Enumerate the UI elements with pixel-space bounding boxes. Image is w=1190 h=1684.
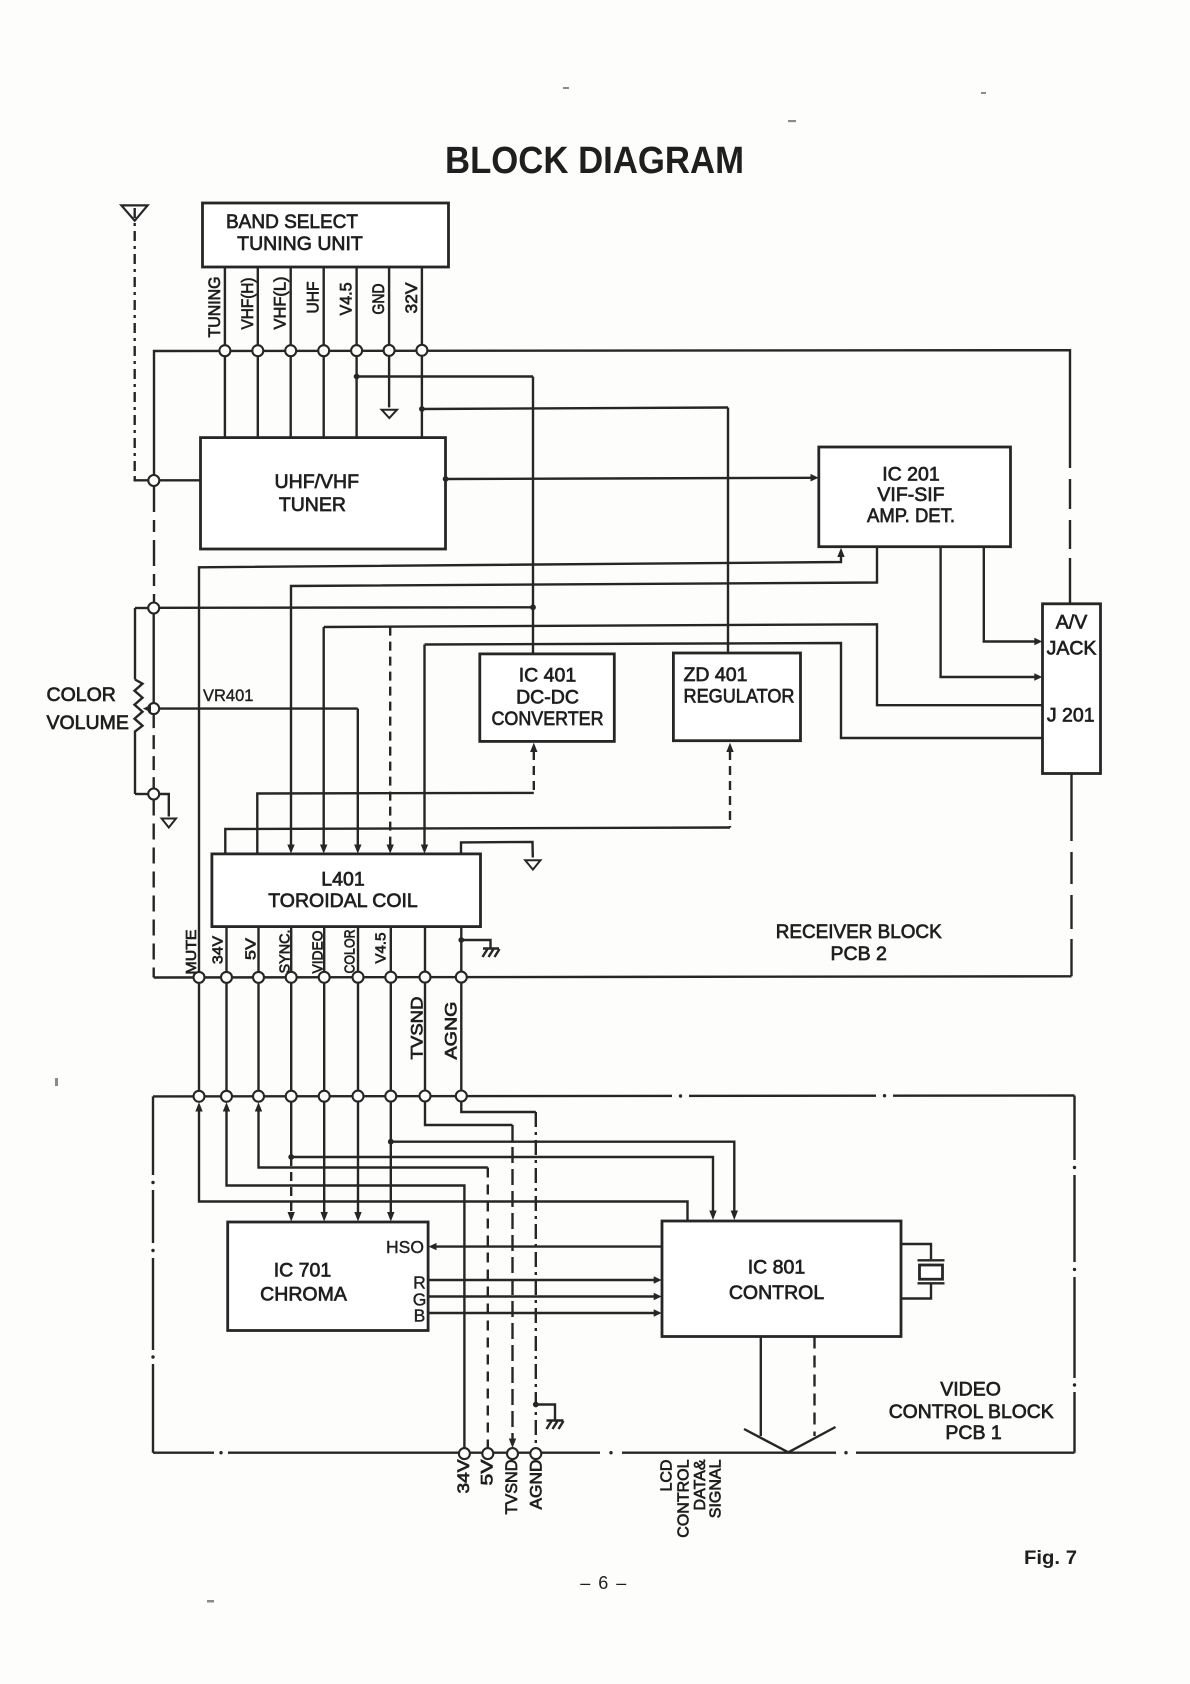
svg-text:TVSND: TVSND	[503, 1459, 521, 1514]
svg-text:VIDEO: VIDEO	[940, 1379, 1001, 1401]
svg-text:LCD: LCD	[658, 1460, 675, 1492]
svg-text:VIF-SIF: VIF-SIF	[877, 484, 944, 506]
svg-text:34V: 34V	[455, 1460, 473, 1494]
svg-text:DC-DC: DC-DC	[516, 687, 579, 709]
svg-text:V4.5: V4.5	[338, 283, 356, 316]
svg-text:AGNG: AGNG	[443, 1002, 461, 1060]
svg-text:VHF(H): VHF(H)	[239, 278, 257, 330]
svg-text:GND: GND	[370, 283, 388, 314]
svg-text:CHROMA: CHROMA	[260, 1284, 347, 1306]
svg-text:COLOR: COLOR	[47, 684, 116, 706]
svg-text:B: B	[414, 1306, 426, 1326]
svg-text:IC 201: IC 201	[882, 464, 939, 486]
svg-text:5V: 5V	[243, 938, 260, 960]
svg-text:Fig. 7: Fig. 7	[1024, 1548, 1077, 1569]
svg-text:BLOCK DIAGRAM: BLOCK DIAGRAM	[445, 140, 744, 182]
svg-text:COLOR: COLOR	[342, 929, 359, 973]
svg-text:32V: 32V	[403, 283, 421, 314]
svg-text:CONTROL: CONTROL	[676, 1459, 693, 1537]
svg-text:ZD 401: ZD 401	[684, 664, 748, 686]
svg-text:CONTROL: CONTROL	[729, 1282, 824, 1304]
svg-text:SIGNAL: SIGNAL	[708, 1459, 725, 1518]
svg-text:TUNING UNIT: TUNING UNIT	[237, 233, 363, 255]
svg-text:CONVERTER: CONVERTER	[492, 708, 604, 730]
svg-text:TOROIDAL COIL: TOROIDAL COIL	[268, 890, 418, 912]
svg-text:TUNER: TUNER	[279, 494, 346, 516]
svg-text:A/V: A/V	[1056, 612, 1087, 634]
svg-text:AGND: AGND	[527, 1459, 545, 1509]
svg-text:MUTE: MUTE	[183, 930, 200, 975]
svg-text:UHF/VHF: UHF/VHF	[275, 471, 360, 493]
svg-text:J 201: J 201	[1047, 705, 1095, 727]
svg-text:CONTROL BLOCK: CONTROL BLOCK	[889, 1401, 1054, 1423]
svg-text:REGULATOR: REGULATOR	[684, 686, 795, 708]
svg-text:HSO: HSO	[386, 1237, 424, 1257]
svg-text:IC 801: IC 801	[748, 1257, 805, 1279]
svg-text:BAND SELECT: BAND SELECT	[226, 211, 358, 233]
svg-text:34V: 34V	[210, 936, 227, 964]
svg-text:SYNC.: SYNC.	[277, 930, 294, 974]
svg-text:RECEIVER BLOCK: RECEIVER BLOCK	[776, 921, 942, 943]
svg-text:TUNING: TUNING	[206, 277, 224, 338]
svg-text:AMP. DET.: AMP. DET.	[867, 505, 955, 527]
svg-text:V4.5: V4.5	[373, 933, 390, 964]
svg-text:VR401: VR401	[203, 687, 253, 705]
svg-text:IC 701: IC 701	[274, 1260, 331, 1282]
svg-text:VOLUME: VOLUME	[47, 712, 129, 734]
svg-text:L401: L401	[321, 869, 364, 891]
svg-text:VIDEO: VIDEO	[310, 931, 327, 974]
svg-text:JACK: JACK	[1047, 638, 1097, 660]
svg-text:PCB 2: PCB 2	[831, 943, 887, 965]
svg-text:5V: 5V	[478, 1460, 496, 1486]
svg-text:DATA&: DATA&	[692, 1459, 709, 1510]
svg-text:VHF(L): VHF(L)	[272, 277, 290, 330]
svg-text:UHF: UHF	[305, 282, 323, 314]
svg-text:– 6 –: – 6 –	[580, 1573, 628, 1593]
svg-text:PCB 1: PCB 1	[945, 1422, 1001, 1444]
svg-text:IC 401: IC 401	[519, 665, 576, 687]
